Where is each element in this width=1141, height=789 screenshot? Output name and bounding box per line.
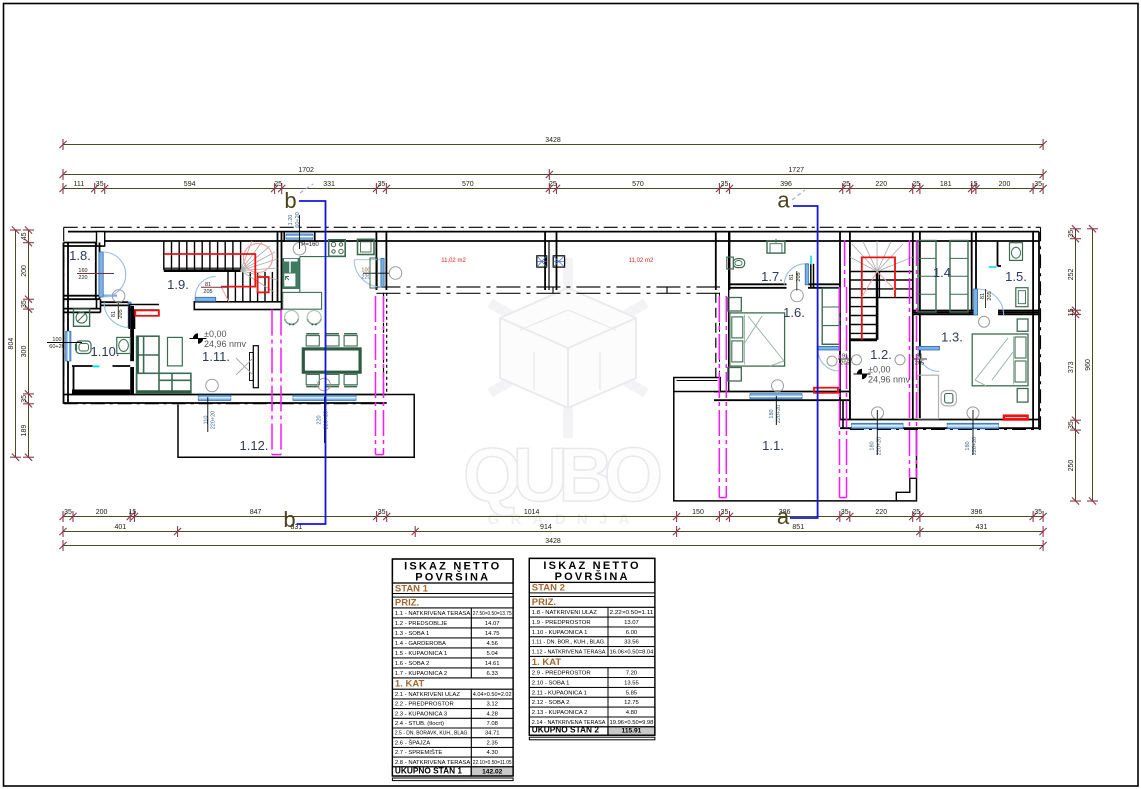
dimension row top subtotals <box>59 167 1046 180</box>
svg-text:16.06×0.50=8.04: 16.06×0.50=8.04 <box>610 649 655 655</box>
svg-text:1.11.: 1.11. <box>202 349 230 364</box>
fridge <box>358 239 375 254</box>
magenta column strip terrace 1.12 left <box>272 310 281 455</box>
wardrobe 1.4 column 1 <box>918 241 936 313</box>
level marker 1.2 <box>857 369 862 374</box>
svg-text:2.4 - STUB. (tlocrt): 2.4 - STUB. (tlocrt) <box>395 721 444 727</box>
toilet 1.5 <box>1010 243 1023 261</box>
svg-text:1.1 - NATKRIVENA TERASA: 1.1 - NATKRIVENA TERASA <box>395 611 470 617</box>
svg-text:220: 220 <box>78 275 87 281</box>
svg-text:180: 180 <box>769 409 775 418</box>
window bottom 1.2 <box>852 423 904 428</box>
staircase 1.2 red left rail <box>861 297 863 340</box>
svg-text:35: 35 <box>378 509 386 516</box>
middle band room A walls <box>375 232 377 290</box>
svg-text:373: 373 <box>1068 361 1075 373</box>
dimension column right total 960 <box>1085 225 1098 504</box>
svg-text:STAN 2: STAN 2 <box>532 583 565 594</box>
svg-text:13.55: 13.55 <box>624 680 639 686</box>
svg-text:1727: 1727 <box>788 167 804 174</box>
wall below band room A dashed <box>383 293 385 395</box>
staircase 1.9 upper flight treads <box>164 241 241 270</box>
svg-text:401: 401 <box>114 524 126 531</box>
dining chairs bottom row <box>306 374 319 384</box>
svg-text:220+20: 220+20 <box>211 411 217 430</box>
svg-text:24,96 nmv: 24,96 nmv <box>204 339 247 349</box>
red radiator 1.11 kitchen wall <box>135 310 159 315</box>
svg-text:60+20: 60+20 <box>295 212 301 227</box>
svg-text:2.3 - KUPAONICA 3: 2.3 - KUPAONICA 3 <box>395 711 448 717</box>
svg-text:2.13 - KUPAONICA 2: 2.13 - KUPAONICA 2 <box>532 710 588 716</box>
svg-text:1014: 1014 <box>524 509 540 516</box>
svg-text:205: 205 <box>987 291 993 300</box>
svg-text:1. KAT: 1. KAT <box>532 657 562 668</box>
svg-text:2.1 - NATKRIVENI ULAZ: 2.1 - NATKRIVENI ULAZ <box>395 692 460 698</box>
svg-text:25: 25 <box>912 181 920 188</box>
svg-text:960: 960 <box>1085 359 1092 371</box>
svg-text:25: 25 <box>912 509 920 516</box>
svg-text:35: 35 <box>21 300 28 308</box>
dimension column left segments <box>21 226 34 460</box>
svg-text:81: 81 <box>789 274 795 280</box>
window top kitchen <box>286 234 313 239</box>
window bottom 1.11 left <box>198 395 231 400</box>
svg-text:15: 15 <box>1068 308 1075 316</box>
svg-text:115.91: 115.91 <box>622 728 642 735</box>
svg-text:4.56: 4.56 <box>486 641 498 647</box>
svg-text:847: 847 <box>250 509 262 516</box>
svg-text:35: 35 <box>841 509 849 516</box>
door 1.2 left leaf <box>818 346 839 350</box>
washbasin 1.7 <box>767 241 785 253</box>
svg-text:4.04×0.50=2.02: 4.04×0.50=2.02 <box>473 692 512 698</box>
toilet 1.7 <box>727 257 734 269</box>
svg-text:25: 25 <box>549 181 557 188</box>
dimension row top segments <box>59 181 1046 194</box>
svg-text:24,96 nmv: 24,96 nmv <box>868 375 911 385</box>
svg-text:QUBO: QUBO <box>463 433 663 518</box>
right outer wall <box>1032 232 1034 430</box>
svg-text:b: b <box>284 188 296 213</box>
svg-text:35: 35 <box>1068 421 1075 429</box>
svg-text:1.3.: 1.3. <box>941 330 963 345</box>
svg-text:35: 35 <box>1034 181 1042 188</box>
svg-text:13.07: 13.07 <box>624 620 639 626</box>
wall between 1.8 and 1.9 <box>95 243 97 300</box>
svg-text:35: 35 <box>64 509 72 516</box>
top wall main band <box>68 231 1039 233</box>
staircase 1.2 flight bottom edge <box>850 338 877 341</box>
cyan mark 1.7 <box>810 256 812 265</box>
staircase 1.2 treads <box>850 272 913 334</box>
outer dashed outline bottom-left <box>64 403 386 405</box>
svg-text:570: 570 <box>632 181 644 188</box>
svg-text:1.8.: 1.8. <box>69 248 91 263</box>
svg-text:252: 252 <box>1068 269 1075 281</box>
circle in band room A <box>389 267 402 280</box>
svg-text:1. KAT: 1. KAT <box>395 679 425 690</box>
dimension column right segments <box>1068 225 1081 504</box>
svg-text:35: 35 <box>1068 230 1075 238</box>
bottom wall room 1.6 <box>714 391 850 393</box>
svg-text:220+20: 220+20 <box>776 405 782 424</box>
wall 1.10 top right band <box>101 301 129 303</box>
svg-text:142.02: 142.02 <box>482 769 503 776</box>
bottom wall rooms 1.2 1.3 <box>840 419 1039 421</box>
svg-text:1.12 - NATKRIVENA TERASA: 1.12 - NATKRIVENA TERASA <box>532 649 606 655</box>
outer dashed outline bottom-right <box>850 429 1041 431</box>
svg-text:180: 180 <box>870 441 876 450</box>
storage room top wall <box>72 365 93 367</box>
svg-text:PRIZ.: PRIZ. <box>395 598 419 609</box>
door 1.5 leaf <box>974 289 978 315</box>
stove cooktop <box>329 240 346 256</box>
svg-text:a: a <box>777 188 790 213</box>
svg-text:34.71: 34.71 <box>485 731 500 737</box>
svg-text:1.20: 1.20 <box>288 215 294 226</box>
svg-text:110: 110 <box>204 416 210 425</box>
svg-text:7.20: 7.20 <box>626 671 638 677</box>
svg-text:5.04: 5.04 <box>486 651 498 657</box>
svg-text:b: b <box>283 507 295 532</box>
wall below 1.4 1.5 <box>913 309 974 311</box>
svg-text:7.08: 7.08 <box>486 721 498 727</box>
dimension row bottom segments <box>59 509 1046 522</box>
svg-text:±0,00: ±0,00 <box>204 329 226 339</box>
door 1.10 leaf <box>128 302 131 327</box>
freestanding terrace wall nub <box>674 378 721 392</box>
svg-text:UKUPNO STAN 2: UKUPNO STAN 2 <box>532 725 600 735</box>
svg-text:570: 570 <box>462 181 474 188</box>
svg-text:5.85: 5.85 <box>626 690 638 696</box>
svg-text:1.7 - KUPAONICA 2: 1.7 - KUPAONICA 2 <box>395 671 447 677</box>
wall right of stair hall 1.9 <box>277 232 279 310</box>
svg-text:1.1.: 1.1. <box>762 438 784 453</box>
staircase 1.2 spine <box>876 272 879 340</box>
svg-text:2.7 - SPREMIŠTE: 2.7 - SPREMIŠTE <box>395 749 443 756</box>
svg-text:19.96×0.50=9.98: 19.96×0.50=9.98 <box>610 720 655 726</box>
shelf between 1.6 and 1.2 <box>822 288 839 344</box>
svg-text:25: 25 <box>274 181 282 188</box>
svg-text:804: 804 <box>8 338 15 350</box>
svg-text:27.50×0.50=13.75: 27.50×0.50=13.75 <box>473 611 512 617</box>
svg-text:200: 200 <box>999 181 1011 188</box>
svg-text:1.8 - NATKRIVENI ULAZ: 1.8 - NATKRIVENI ULAZ <box>532 610 597 616</box>
svg-text:STAN 1: STAN 1 <box>395 583 429 594</box>
svg-text:4.28: 4.28 <box>486 711 498 717</box>
nightstands 1.6 <box>728 298 742 312</box>
svg-text:4.80: 4.80 <box>626 710 638 716</box>
svg-text:15: 15 <box>128 509 136 516</box>
svg-text:851: 851 <box>792 524 804 531</box>
svg-text:UKUPNO STAN 1: UKUPNO STAN 1 <box>395 766 463 776</box>
section line a <box>790 206 818 518</box>
svg-text:35: 35 <box>1034 509 1042 516</box>
svg-text:1.6 - SOBA 2: 1.6 - SOBA 2 <box>395 661 429 667</box>
svg-text:1.6.: 1.6. <box>783 305 805 320</box>
TV panel 1.11 <box>253 346 258 388</box>
svg-text:35: 35 <box>721 509 729 516</box>
svg-text:3428: 3428 <box>545 137 561 144</box>
staircase 1.9 winder fan lines <box>241 241 278 292</box>
svg-text:220: 220 <box>317 415 323 424</box>
svg-text:594: 594 <box>184 181 196 188</box>
section line b <box>297 201 326 524</box>
svg-text:220: 220 <box>875 509 887 516</box>
svg-text:P=160: P=160 <box>301 242 319 248</box>
bottom wall left apartment <box>64 394 387 396</box>
svg-text:±0,00: ±0,00 <box>868 365 890 375</box>
svg-text:22.10×0.50=11.05: 22.10×0.50=11.05 <box>473 760 512 766</box>
bed 1.3 <box>972 334 1028 386</box>
dining table 1.11 <box>303 349 360 372</box>
table STAN 1 <box>392 559 513 781</box>
dimension row bottom subtotals <box>59 524 1046 537</box>
wall kitchen corner 1.11 <box>129 304 159 306</box>
svg-text:35: 35 <box>378 181 386 188</box>
dimension row top total 3428 <box>59 137 1046 150</box>
svg-text:35: 35 <box>21 395 28 403</box>
window bottom 1.3 <box>947 423 998 428</box>
magenta column strip 1.1 right <box>910 240 917 478</box>
chair 1.3 <box>941 391 956 406</box>
svg-text:POVRŠINA: POVRŠINA <box>415 571 490 584</box>
svg-text:1.5.: 1.5. <box>1005 269 1027 284</box>
wall room 1.7 bottom <box>729 283 787 285</box>
svg-text:2.9 - PREDPROSTOR: 2.9 - PREDPROSTOR <box>532 671 591 677</box>
svg-text:205: 205 <box>915 361 924 367</box>
washbasin 1.10 <box>117 337 131 353</box>
svg-text:220: 220 <box>361 275 370 281</box>
nightstands 1.3 <box>1017 319 1028 331</box>
level marker 1.11 <box>193 333 198 338</box>
watermark logo star <box>490 258 646 438</box>
wall 1.10 top left band <box>64 308 101 310</box>
washbasin 1.5 <box>1016 288 1028 307</box>
window left 1.10 <box>66 331 71 361</box>
staircase 1.9 lower flight treads <box>228 272 272 302</box>
svg-text:100: 100 <box>361 268 370 274</box>
outer roof overhang dashed outline top <box>64 226 1041 228</box>
table STAN 2 <box>529 558 655 739</box>
dimension row bottom total 3428 <box>59 538 1046 551</box>
door 1.9 bottom leaf <box>195 297 216 301</box>
svg-text:14.75: 14.75 <box>485 631 500 637</box>
magenta column strip 1.1 middle <box>840 287 847 498</box>
cyan mark storage <box>93 365 100 367</box>
door room 1.8 arc <box>103 252 126 275</box>
door 1.2 right leaf <box>918 346 940 350</box>
kitchen counter outline 1.11 <box>300 256 346 258</box>
svg-text:45: 45 <box>21 232 28 240</box>
svg-text:300: 300 <box>21 346 28 358</box>
svg-text:11,02 m2: 11,02 m2 <box>629 258 654 264</box>
svg-text:1.11 - DN. BOR., KUH., BLAG.: 1.11 - DN. BOR., KUH., BLAG. <box>532 640 606 646</box>
svg-text:15: 15 <box>970 181 978 188</box>
staircase 1.2 winder fan <box>850 241 913 272</box>
wall below room 1.8 <box>64 295 100 297</box>
svg-text:331: 331 <box>323 181 335 188</box>
svg-text:6.00: 6.00 <box>626 630 638 636</box>
wall between 1.10 and 1.11 <box>130 306 134 361</box>
watermark logo cube <box>500 288 636 408</box>
svg-text:189: 189 <box>21 425 28 437</box>
bed 1.6 <box>730 313 785 366</box>
window bottom dining <box>293 395 356 400</box>
staircase 1.9 spiral circle pink <box>244 244 273 273</box>
svg-text:2.2 - PREDPROSTOR: 2.2 - PREDPROSTOR <box>395 702 454 708</box>
terrace 1.12 outline <box>178 395 414 458</box>
terrace 1.1 outline <box>674 392 917 501</box>
coffee table 1.11 <box>168 337 183 366</box>
svg-text:1.2 - PREDSOBLJE: 1.2 - PREDSOBLJE <box>395 621 447 627</box>
svg-text:150: 150 <box>692 509 704 516</box>
svg-text:14.61: 14.61 <box>485 661 500 667</box>
svg-text:220: 220 <box>875 181 887 188</box>
svg-text:1.7.: 1.7. <box>761 269 783 284</box>
svg-text:a: a <box>777 504 790 529</box>
svg-text:3.12: 3.12 <box>486 702 497 708</box>
cyan mark 1.5 <box>989 266 997 268</box>
svg-text:396: 396 <box>971 509 983 516</box>
svg-text:1.4 - GARDEROBA: 1.4 - GARDEROBA <box>395 641 446 647</box>
red radiator 1.6 <box>814 388 838 393</box>
storage room bottom-left walls <box>73 366 75 390</box>
svg-text:181: 181 <box>940 181 952 188</box>
svg-text:11,02 m2: 11,02 m2 <box>441 258 466 264</box>
west wall of right apartment <box>715 293 717 377</box>
svg-text:14.07: 14.07 <box>485 621 500 627</box>
middle band bottom wall dashed <box>376 286 720 288</box>
concrete column right <box>553 256 564 267</box>
dimension column left total 804 <box>8 226 21 460</box>
svg-text:POVRŠINA: POVRŠINA <box>555 570 630 583</box>
middle band divider wall <box>544 232 546 290</box>
svg-text:2.12 - SOBA 2: 2.12 - SOBA 2 <box>532 700 570 706</box>
svg-text:180: 180 <box>965 441 971 450</box>
stairwell 1.2 right wall / 1.3 west wall <box>912 232 914 420</box>
svg-text:4.30: 4.30 <box>486 750 498 756</box>
wall between 1.4 and 1.5 <box>971 232 973 311</box>
svg-text:205: 205 <box>203 289 212 295</box>
staircase 1.9 red railing <box>164 254 255 287</box>
toilet 1.10 <box>76 341 91 354</box>
kitchen unit dark green 1.11 <box>283 258 300 289</box>
wall 1.5 inner nub <box>997 241 999 266</box>
svg-text:1.4: 1.4 <box>933 265 951 280</box>
door room 1.8 leaf <box>99 252 103 297</box>
svg-text:205: 205 <box>118 309 124 318</box>
svg-text:2.10 - SOBA 1: 2.10 - SOBA 1 <box>532 680 570 686</box>
tall cabinet left of band <box>370 258 378 288</box>
svg-text:25: 25 <box>842 181 850 188</box>
stairwell 1.2 left wall <box>839 232 841 420</box>
svg-text:914: 914 <box>540 524 552 531</box>
outer dashed outline left <box>63 227 65 403</box>
door 1.8 open stub <box>100 295 118 297</box>
magenta column strip 1.1 left <box>719 296 726 498</box>
svg-text:200: 200 <box>21 265 28 277</box>
svg-text:111: 111 <box>74 181 85 188</box>
svg-text:200: 200 <box>96 509 108 516</box>
svg-text:33.56: 33.56 <box>624 640 639 646</box>
svg-text:2.6 - ŠPAJZA: 2.6 - ŠPAJZA <box>395 739 430 746</box>
door 1.7 leaf <box>805 264 808 285</box>
svg-text:81: 81 <box>111 311 117 317</box>
desk 1.3 <box>918 375 939 419</box>
middle band room B right wall <box>715 232 717 290</box>
svg-text:205: 205 <box>840 361 849 367</box>
downlight circles <box>112 242 989 419</box>
door band room A leaf <box>381 258 384 286</box>
svg-text:1702: 1702 <box>298 167 314 174</box>
svg-text:3428: 3428 <box>545 538 561 545</box>
window bottom 1.6 <box>750 394 802 399</box>
washing machine 1.10 <box>74 309 90 326</box>
svg-text:431: 431 <box>976 524 988 531</box>
svg-text:35: 35 <box>721 181 729 188</box>
svg-text:1.3 - SOBA 1: 1.3 - SOBA 1 <box>395 631 429 637</box>
svg-text:1.10.: 1.10. <box>91 344 120 359</box>
svg-text:1.9 - PREDPROSTOR: 1.9 - PREDPROSTOR <box>532 620 591 626</box>
sofa L-shape 1.11 <box>137 336 191 393</box>
svg-text:1.9.: 1.9. <box>167 277 189 292</box>
svg-text:12.75: 12.75 <box>624 700 639 706</box>
staircase 1.2 red railing box <box>862 257 895 297</box>
svg-text:PRIZ.: PRIZ. <box>532 597 556 608</box>
concrete column left <box>537 256 547 267</box>
svg-text:35: 35 <box>96 181 104 188</box>
svg-text:2.11 - KUPAONICA 1: 2.11 - KUPAONICA 1 <box>532 690 587 696</box>
wardrobe 1.4 column 2 <box>950 241 968 313</box>
svg-text:6.33: 6.33 <box>486 671 498 677</box>
round chairs pair <box>285 311 299 325</box>
svg-text:2.5 - DN. BORAVK, KUH., BLAG.: 2.5 - DN. BORAVK, KUH., BLAG. <box>395 731 469 737</box>
staircase 1.9 flight lower edge <box>164 269 241 272</box>
svg-text:1.12.: 1.12. <box>240 438 269 453</box>
svg-text:2.22×0.50=1.11: 2.22×0.50=1.11 <box>610 610 654 616</box>
svg-text:1.10 - KUPAONICA 1: 1.10 - KUPAONICA 1 <box>532 630 588 636</box>
magenta stair edge lines 1.2 <box>844 240 846 287</box>
svg-text:1.2.: 1.2. <box>870 347 892 362</box>
svg-text:1.5 - KUPAONICA 1: 1.5 - KUPAONICA 1 <box>395 651 447 657</box>
stairwell 1.9 bottom wall <box>194 302 281 310</box>
staircase 1.9 red box <box>258 277 269 292</box>
svg-text:60+20: 60+20 <box>49 344 64 350</box>
svg-text:2.35: 2.35 <box>486 740 498 746</box>
top wall entry 1.8 <box>64 242 105 244</box>
left outer wall <box>63 243 65 404</box>
red radiator 1.3 <box>1004 415 1029 420</box>
magenta column strip terrace 1.12 right <box>376 296 384 455</box>
svg-text:250: 250 <box>1068 460 1075 472</box>
outer dashed outline right <box>1040 227 1042 429</box>
dining chairs top row <box>306 336 319 346</box>
